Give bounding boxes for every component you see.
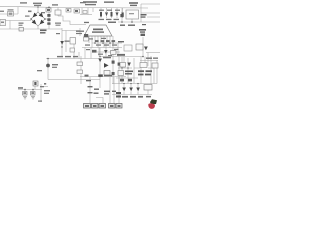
mid right cluster bbox=[139, 29, 146, 36]
component on x122 bbox=[120, 14, 123, 17]
text row y96 right bbox=[122, 96, 151, 98]
wire rail y94.5 bbox=[112, 94, 152, 96]
wire vertical x143 bbox=[142, 37, 144, 57]
small box left of IC pins bbox=[84, 37, 89, 41]
electrolytic blob on x48 bbox=[46, 64, 50, 68]
line filter box bbox=[8, 12, 14, 17]
junction dots bbox=[24, 6, 143, 90]
wire rail right y78 bbox=[116, 77, 138, 79]
logo red part bbox=[148, 103, 155, 108]
boxes mid-left bbox=[70, 38, 76, 45]
diode on x62 bbox=[60, 41, 64, 45]
wire vertical x18 bbox=[17, 7, 19, 14]
wire L bottom bbox=[96, 98, 103, 104]
wire bus y56.5 right bbox=[100, 56, 143, 58]
wire vertical x148 right bbox=[147, 53, 149, 67]
wire right verticals bbox=[122, 56, 157, 84]
wire vertical x119 mid bbox=[118, 57, 120, 85]
connector row bottom bbox=[84, 104, 123, 109]
dark labels left edge right block bbox=[116, 92, 121, 98]
text right of box bbox=[120, 14, 147, 26]
wire bus y29 bbox=[0, 28, 62, 30]
node IC pins bbox=[86, 36, 113, 48]
column x100 components bbox=[98, 59, 102, 63]
wire line y14.5 center bbox=[80, 14, 92, 16]
component row under IC y40 bbox=[94, 40, 115, 44]
bottom mid ticks bbox=[88, 86, 117, 95]
wire vertical x66 bbox=[65, 31, 67, 53]
wire line y20.5 bbox=[5, 20, 31, 22]
wire rail right y68 bbox=[118, 67, 132, 69]
AC input connector bbox=[0, 20, 6, 26]
wire vertical x113 mid bbox=[112, 57, 114, 85]
wire line y22 right bbox=[118, 21, 160, 23]
wire bridge stems bbox=[37, 7, 39, 29]
bus labels above y58.5 bbox=[57, 56, 78, 57]
wire line y52.5 to edge bbox=[146, 52, 160, 54]
wire rail y52 partial bbox=[96, 51, 120, 53]
blobs x113 x119 x124 bbox=[112, 61, 115, 64]
wire vertical x100 bbox=[99, 48, 101, 89]
logo dark part bbox=[150, 99, 157, 104]
wire right diode stems bbox=[124, 84, 138, 95]
text under diode row bbox=[99, 19, 120, 20]
wire vertical x62 bbox=[61, 28, 63, 57]
text above IC bbox=[84, 22, 116, 24]
top right text bbox=[129, 2, 138, 6]
wire bridge out right bbox=[45, 18, 49, 20]
wire vertical x81 bbox=[80, 56, 82, 84]
wire tick x41 bbox=[41, 86, 48, 88]
text mid bottom bbox=[85, 74, 113, 90]
wire line y14 left bbox=[0, 13, 18, 15]
ground symbols bbox=[23, 97, 35, 100]
second row components under IC bbox=[92, 50, 97, 53]
box top right bbox=[126, 10, 139, 19]
wire stepped to IC bbox=[58, 16, 86, 25]
wire vertical x49 bbox=[48, 7, 50, 29]
right block components bbox=[120, 63, 126, 68]
label boxes column x81 bbox=[77, 62, 83, 66]
wire vertical x79 bbox=[78, 52, 80, 59]
wire rail y43 bbox=[92, 42, 122, 44]
wire diode row stems bbox=[101, 8, 123, 18]
wire vertical x74 bbox=[73, 44, 75, 59]
wire vertical x58 bbox=[57, 8, 59, 17]
wire vertical x132 under box bbox=[131, 19, 133, 22]
wire rail y76.5 bbox=[80, 76, 126, 78]
wire bottom left line bbox=[18, 89, 42, 91]
hybrid IC trapezoid bbox=[84, 25, 112, 36]
wire vertical x48 bbox=[47, 59, 49, 80]
wire rail right y83.5 bbox=[112, 83, 157, 85]
wire verticals under rail center bbox=[82, 8, 93, 15]
bridge rectifier diamond bbox=[31, 12, 45, 26]
component chain x49 bbox=[47, 14, 50, 17]
wire bus y79.5 bbox=[48, 79, 100, 81]
small parts top mid bbox=[66, 9, 71, 13]
capacitor left bbox=[19, 28, 24, 32]
relay box bbox=[55, 10, 61, 15]
wire vertical x124 bbox=[123, 57, 125, 69]
wire vertical x41 left-mid bbox=[40, 84, 42, 102]
text between rails under IC bbox=[85, 38, 119, 56]
wire top rail bbox=[0, 6, 148, 8]
wire vertical x80 top bbox=[79, 28, 81, 36]
wire rail y47.5 bbox=[82, 47, 122, 49]
wire vertical x10 bbox=[9, 21, 11, 30]
wire bottom mid verticals bbox=[90, 77, 119, 103]
comp x86 bbox=[84, 34, 88, 37]
box right bottom bbox=[144, 85, 152, 91]
wire vertical x141 bbox=[140, 4, 142, 22]
wire vertical x148 under box bbox=[147, 90, 149, 95]
text top-left bbox=[0, 2, 86, 26]
wire bus y58.5 bbox=[46, 58, 100, 60]
left-mid labels bbox=[40, 30, 47, 34]
diode row under rail bbox=[100, 12, 124, 17]
wire vertical x122 top right bbox=[121, 8, 123, 22]
text top-center rows bbox=[83, 1, 120, 11]
wire line y30.5 bbox=[62, 30, 80, 32]
wire right exits bbox=[141, 4, 160, 17]
right diode row under y84 bbox=[122, 88, 140, 92]
wire bottom left drops bbox=[25, 86, 35, 92]
fuse box bbox=[46, 8, 51, 12]
bottom-left cluster bbox=[33, 81, 38, 86]
wire verticals below IC bbox=[85, 43, 118, 59]
